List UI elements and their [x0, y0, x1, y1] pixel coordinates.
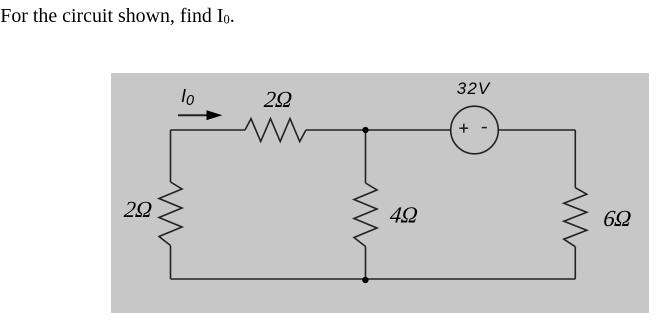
svg-text:For the circuit shown, find I0: For the circuit shown, find I0.: [0, 5, 234, 27]
svg-text:6Ω: 6Ω: [602, 205, 632, 231]
svg-text:32V: 32V: [457, 79, 491, 98]
svg-text:4Ω: 4Ω: [389, 201, 419, 227]
svg-text:2Ω: 2Ω: [123, 196, 153, 222]
svg-text:2Ω: 2Ω: [263, 86, 293, 112]
